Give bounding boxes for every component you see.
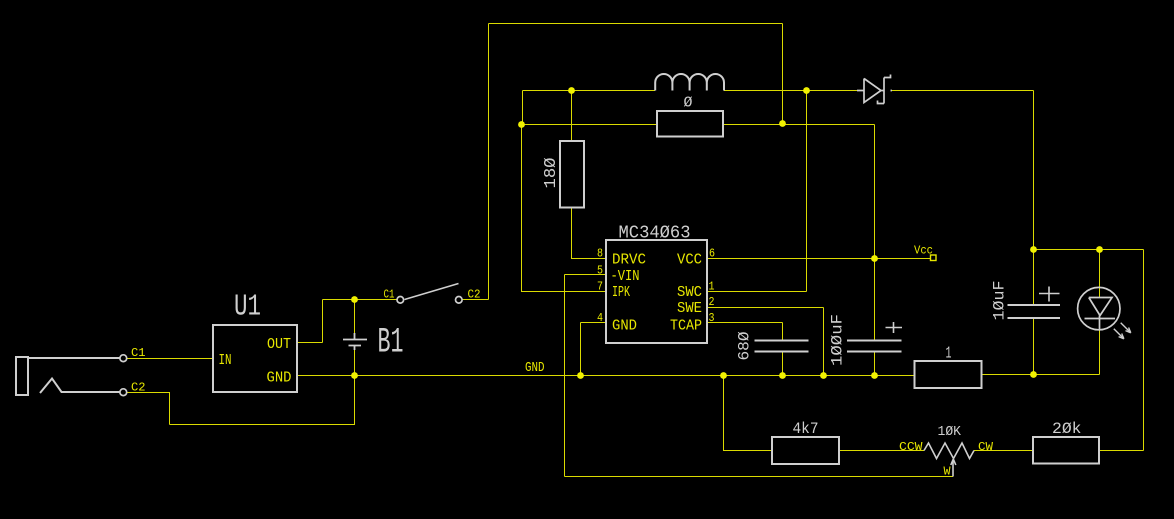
resistor 20k box — [1033, 437, 1099, 464]
svg-text:1ØØuF: 1ØØuF — [829, 314, 847, 366]
switch pin circle C1 — [397, 297, 404, 304]
svg-text:1: 1 — [709, 281, 715, 294]
svg-text:W: W — [944, 466, 951, 479]
wire 20k right up — [1099, 250, 1144, 451]
wire swc drop x806 — [806, 91, 808, 292]
svg-text:C1: C1 — [131, 347, 146, 360]
svg-text:C2: C2 — [131, 382, 146, 395]
wire led bottom lead — [1099, 330, 1101, 375]
svg-text:TCAP: TCAP — [670, 318, 702, 335]
svg-text:5: 5 — [597, 265, 603, 278]
wire -vin — [565, 274, 607, 276]
wire b1 to c2 return — [127, 376, 355, 425]
svg-text:B1: B1 — [378, 323, 404, 363]
jack pin circle C2 — [120, 389, 127, 396]
jack J1 tip contact — [40, 379, 120, 394]
wire pin3 tcap — [707, 323, 783, 376]
wire out gnd row — [982, 374, 1100, 376]
wire pot cw to 20k — [974, 450, 1033, 452]
svg-text:8: 8 — [597, 248, 603, 261]
wire inductor row — [523, 90, 1034, 92]
wire switch C2 to rail — [462, 299, 489, 301]
wire vcc drop x874 — [874, 125, 876, 341]
wire pin6 vcc — [707, 258, 930, 260]
wire output top row — [1034, 249, 1144, 251]
junction at battery top — [351, 296, 358, 303]
svg-text:Ø: Ø — [684, 95, 693, 112]
svg-text:6: 6 — [709, 248, 715, 261]
junction at battery bottom — [351, 372, 358, 379]
svg-text:1ØuF: 1ØuF — [991, 281, 1009, 321]
resistor R1 box — [915, 361, 982, 388]
svg-text:68Ø: 68Ø — [736, 331, 754, 360]
svg-text:SWE: SWE — [677, 300, 702, 317]
svg-text:2Øk: 2Øk — [1052, 420, 1082, 438]
resistor R0 box — [657, 111, 723, 137]
inductor L1 — [655, 74, 724, 91]
svg-text:CW: CW — [978, 441, 993, 454]
resistor 180 box — [560, 141, 584, 208]
wire drop to 4k7 — [724, 376, 772, 451]
svg-text:-VIN: -VIN — [611, 268, 640, 285]
junction gnd swe — [820, 372, 827, 379]
wire left rail vertical — [488, 24, 490, 300]
wire 180 top lead — [571, 91, 573, 142]
wire U1 out to switch — [297, 300, 397, 343]
junction gnd 680 — [779, 372, 786, 379]
svg-text:GND: GND — [525, 360, 545, 376]
wire -vin drop — [564, 275, 566, 477]
capacitor 10uF — [1008, 305, 1061, 318]
svg-text:C1: C1 — [384, 289, 395, 302]
junction ipk — [518, 121, 525, 128]
jack J1 sleeve lead — [28, 357, 120, 359]
svg-text:2: 2 — [709, 296, 715, 309]
svg-text:GND: GND — [267, 370, 292, 387]
junction vcc — [871, 255, 878, 262]
wire diode out drop — [1033, 91, 1035, 250]
svg-text:OUT: OUT — [267, 336, 291, 353]
wire 10uF leads — [1033, 250, 1035, 375]
junction swc top — [803, 87, 810, 94]
wire led top lead — [1099, 250, 1101, 298]
jack J1 sleeve — [16, 357, 28, 395]
svg-text:VCC: VCC — [677, 252, 702, 269]
potentiometer wiper — [951, 459, 956, 477]
svg-text:3: 3 — [709, 312, 715, 325]
diode D1 — [857, 75, 892, 104]
LED D2 triangle and bar — [1085, 298, 1116, 330]
junction gnd 100uF — [871, 372, 878, 379]
battery B1 — [343, 333, 367, 350]
svg-text:Vcc: Vcc — [914, 245, 933, 258]
svg-text:IPK: IPK — [612, 284, 630, 301]
svg-text:MC34Ø63: MC34Ø63 — [619, 223, 691, 244]
switch S1 lever — [405, 284, 459, 300]
junction out top left — [1030, 246, 1037, 253]
junction 180 top — [568, 87, 575, 94]
wire jack c1 to U1 in — [127, 358, 213, 360]
wire battery top — [354, 300, 356, 334]
wire resistor0 row — [522, 124, 875, 126]
LED D2 arrows — [1114, 323, 1131, 339]
wire pin4 gnd — [581, 323, 607, 376]
capacitor 680 — [755, 341, 809, 352]
svg-text:1ØK: 1ØK — [938, 424, 962, 440]
svg-text:CCW: CCW — [899, 441, 923, 454]
svg-text:7: 7 — [597, 281, 603, 294]
svg-text:U1: U1 — [234, 290, 261, 325]
wire 180 bottom to pin8 — [572, 208, 607, 259]
svg-text:1: 1 — [946, 344, 952, 363]
svg-text:4k7: 4k7 — [793, 420, 819, 438]
capacitor 10uF plus — [1039, 287, 1060, 302]
LED D2 circle — [1078, 287, 1120, 329]
svg-text:4: 4 — [597, 312, 603, 325]
wire gnd rail — [297, 375, 915, 377]
capacitor 100uF plus — [886, 322, 903, 333]
U1 box — [213, 325, 297, 392]
potentiometer 10K zigzag — [924, 443, 974, 459]
wire bottom loop — [565, 476, 954, 478]
jack pin circle C1 — [120, 355, 127, 362]
junction out top right — [1096, 246, 1103, 253]
svg-text:GND: GND — [612, 318, 637, 335]
junction gnd ic — [577, 372, 584, 379]
wire corner x522 — [522, 91, 524, 125]
svg-text:SWC: SWC — [677, 284, 702, 301]
wire pin1 swc — [707, 291, 807, 293]
wire right rail vertical — [782, 24, 784, 124]
wire 100uF bottom lead — [874, 352, 876, 376]
wire 4k7 to pot ccw — [840, 450, 925, 452]
junction out gnd — [1030, 371, 1037, 378]
svg-text:18Ø: 18Ø — [542, 158, 561, 189]
terminal Vcc square — [931, 255, 937, 261]
svg-text:IN: IN — [219, 352, 232, 369]
junction right rail bottom — [779, 120, 786, 127]
wire pin2 swe — [707, 308, 824, 376]
capacitor 100uF — [847, 341, 902, 352]
switch pin circle C2 — [456, 297, 463, 304]
junction gnd 4k7 — [720, 372, 727, 379]
resistor 4k7 box — [772, 437, 839, 464]
wire top rail — [489, 23, 783, 25]
IC U2 box MC34063 — [606, 240, 707, 343]
svg-text:DRVC: DRVC — [612, 252, 646, 269]
wire battery bottom — [354, 350, 356, 376]
svg-text:C2: C2 — [468, 289, 481, 302]
wire ipk vertical — [522, 125, 607, 292]
